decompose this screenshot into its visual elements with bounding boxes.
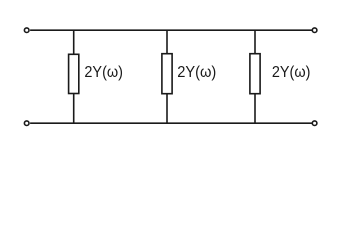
wire bottom rail xyxy=(30,122,312,124)
admittance box 2 (2Y(ω)) xyxy=(162,54,172,94)
wire branch 1 bottom xyxy=(73,93,75,123)
admittance box 1 (2Y(ω)) xyxy=(69,54,79,93)
svg-text:2Y(ω): 2Y(ω) xyxy=(272,64,311,81)
admittance box 3 (2Y(ω)) xyxy=(250,54,260,94)
wire top rail xyxy=(30,29,312,31)
wire branch 2 top xyxy=(166,30,168,54)
terminal top-right xyxy=(312,28,317,33)
terminal bottom-right xyxy=(312,121,317,126)
svg-text:2Y(ω): 2Y(ω) xyxy=(84,64,123,81)
wire branch 3 top xyxy=(254,30,256,54)
terminal bottom-left xyxy=(24,121,29,126)
terminal top-left xyxy=(24,28,29,33)
wire branch 2 bottom xyxy=(166,94,168,124)
wire branch 1 top xyxy=(73,30,75,55)
wire branch 3 bottom xyxy=(254,94,256,124)
svg-text:2Y(ω): 2Y(ω) xyxy=(177,64,216,81)
